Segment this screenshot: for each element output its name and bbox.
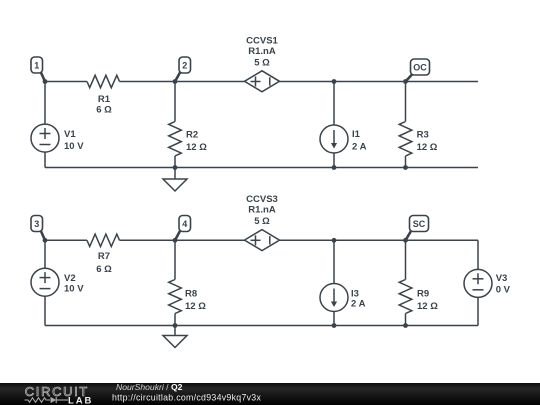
resistor R3	[399, 122, 438, 157]
svg-text:6 Ω: 6 Ω	[96, 105, 112, 116]
wire R2 top lead	[174, 82, 176, 122]
svg-text:V3: V3	[496, 273, 508, 284]
resistor R8	[169, 280, 207, 314]
junction I1 bottom	[332, 165, 337, 170]
junction node1	[43, 79, 48, 84]
junction node4	[173, 238, 178, 243]
wire R3 bottom lead	[405, 156, 407, 168]
svg-text:R1: R1	[98, 94, 111, 105]
wire R8 bottom lead	[174, 314, 176, 326]
junction I3 top	[332, 238, 337, 243]
dependent source CCVS1	[245, 35, 280, 91]
CircuitLab logo	[25, 384, 94, 405]
svg-text:12 Ω: 12 Ω	[186, 142, 207, 153]
junction R9 bottom	[403, 323, 408, 328]
svg-text:R1.nA: R1.nA	[248, 46, 276, 57]
wire V3 top lead	[477, 240, 479, 269]
svg-text:6 Ω: 6 Ω	[96, 264, 112, 275]
junction ground top	[173, 165, 178, 170]
svg-text:http://circuitlab.com/cd934v9k: http://circuitlab.com/cd934v9kq7v3x	[112, 392, 261, 402]
wire I1 top lead	[333, 82, 335, 126]
svg-text:0 V: 0 V	[496, 285, 511, 296]
resistor R2	[169, 122, 208, 157]
svg-text:R2: R2	[186, 130, 198, 141]
svg-text:5 Ω: 5 Ω	[254, 57, 270, 68]
wire top rail: CCVS1 to right open end OC	[280, 81, 479, 83]
svg-text:R7: R7	[98, 251, 110, 262]
junction node2	[173, 79, 178, 84]
voltage source V1	[31, 124, 84, 152]
svg-text:12 Ω: 12 Ω	[417, 142, 438, 153]
wire top rail: node4 to CCVS3	[175, 239, 245, 241]
wire top rail: node2 to CCVS1	[175, 81, 245, 83]
junction R3 bottom	[403, 165, 408, 170]
svg-text:I1: I1	[352, 129, 361, 140]
svg-text:10 V: 10 V	[64, 284, 84, 295]
ground (top circuit)	[163, 168, 187, 192]
node OC label	[406, 59, 430, 82]
wire bottom rail (ground net 2)	[45, 325, 478, 327]
wire top rail: R7 to node4	[120, 239, 176, 241]
wire R9 bottom lead	[405, 314, 407, 326]
voltage source V3	[464, 269, 511, 297]
svg-text:R3: R3	[417, 130, 429, 141]
wire R8 top lead	[174, 240, 176, 279]
junction SC	[403, 238, 408, 243]
svg-text:R1.nA: R1.nA	[248, 205, 276, 216]
dependent source CCVS3	[245, 194, 280, 251]
node SC label	[406, 216, 429, 241]
node 3 label	[31, 216, 45, 241]
resistor R9	[399, 280, 438, 314]
svg-text:SC: SC	[413, 219, 426, 229]
current source I3	[320, 284, 366, 312]
wire V1 bottom lead	[44, 152, 46, 168]
svg-text:V2: V2	[64, 273, 76, 284]
svg-text:LAB: LAB	[68, 395, 93, 405]
wire top rail: node1 to R1	[45, 81, 87, 83]
resistor R1	[87, 75, 120, 115]
junction node3	[43, 238, 48, 243]
svg-text:4: 4	[182, 219, 187, 229]
node 1 label	[31, 57, 45, 82]
svg-text:2: 2	[182, 60, 187, 70]
svg-text:2 A: 2 A	[351, 299, 366, 310]
wire I1 bottom lead	[333, 153, 335, 168]
svg-text:V1: V1	[64, 129, 76, 140]
svg-text:OC: OC	[413, 62, 427, 72]
junction I1 top	[332, 79, 337, 84]
svg-text:R9: R9	[417, 289, 429, 300]
resistor R7	[87, 234, 120, 275]
svg-text:3: 3	[34, 219, 39, 229]
node 2 label	[175, 57, 191, 82]
svg-text:1: 1	[34, 60, 39, 70]
svg-text:10 V: 10 V	[64, 141, 84, 152]
wire V1 top lead	[44, 82, 46, 125]
wire I3 bottom lead	[333, 312, 335, 326]
wire R2 bottom lead	[174, 156, 176, 168]
wire top rail: R1 to node2	[120, 81, 176, 83]
node 4 label	[175, 216, 191, 241]
wire R3 top lead	[405, 82, 407, 122]
junction I3 bottom	[332, 323, 337, 328]
wire top rail: CCVS3 to V3 branch	[280, 239, 479, 241]
junction ground bottom	[173, 323, 178, 328]
svg-text:12 Ω: 12 Ω	[417, 301, 438, 312]
svg-text:12 Ω: 12 Ω	[185, 301, 206, 312]
wire R9 top lead	[405, 240, 407, 279]
wire top rail: node3 to R7	[45, 239, 87, 241]
ground (bottom circuit)	[163, 326, 187, 348]
svg-text:R8: R8	[185, 289, 197, 300]
svg-text:CCVS3: CCVS3	[246, 194, 278, 205]
wire V3 bottom lead	[477, 297, 479, 325]
svg-text:2 A: 2 A	[352, 142, 367, 153]
junction OC	[403, 79, 408, 84]
svg-text:CCVS1: CCVS1	[246, 35, 278, 46]
voltage source V2	[31, 268, 84, 296]
current source I1	[320, 125, 367, 153]
svg-text:5 Ω: 5 Ω	[254, 216, 270, 227]
wire V2 bottom lead	[44, 296, 46, 325]
wire bottom rail (ground net)	[45, 167, 478, 169]
wire V2 top lead	[44, 240, 46, 268]
wire I3 top lead	[333, 240, 335, 283]
svg-text:NourShoukri / Q2: NourShoukri / Q2	[116, 382, 183, 392]
